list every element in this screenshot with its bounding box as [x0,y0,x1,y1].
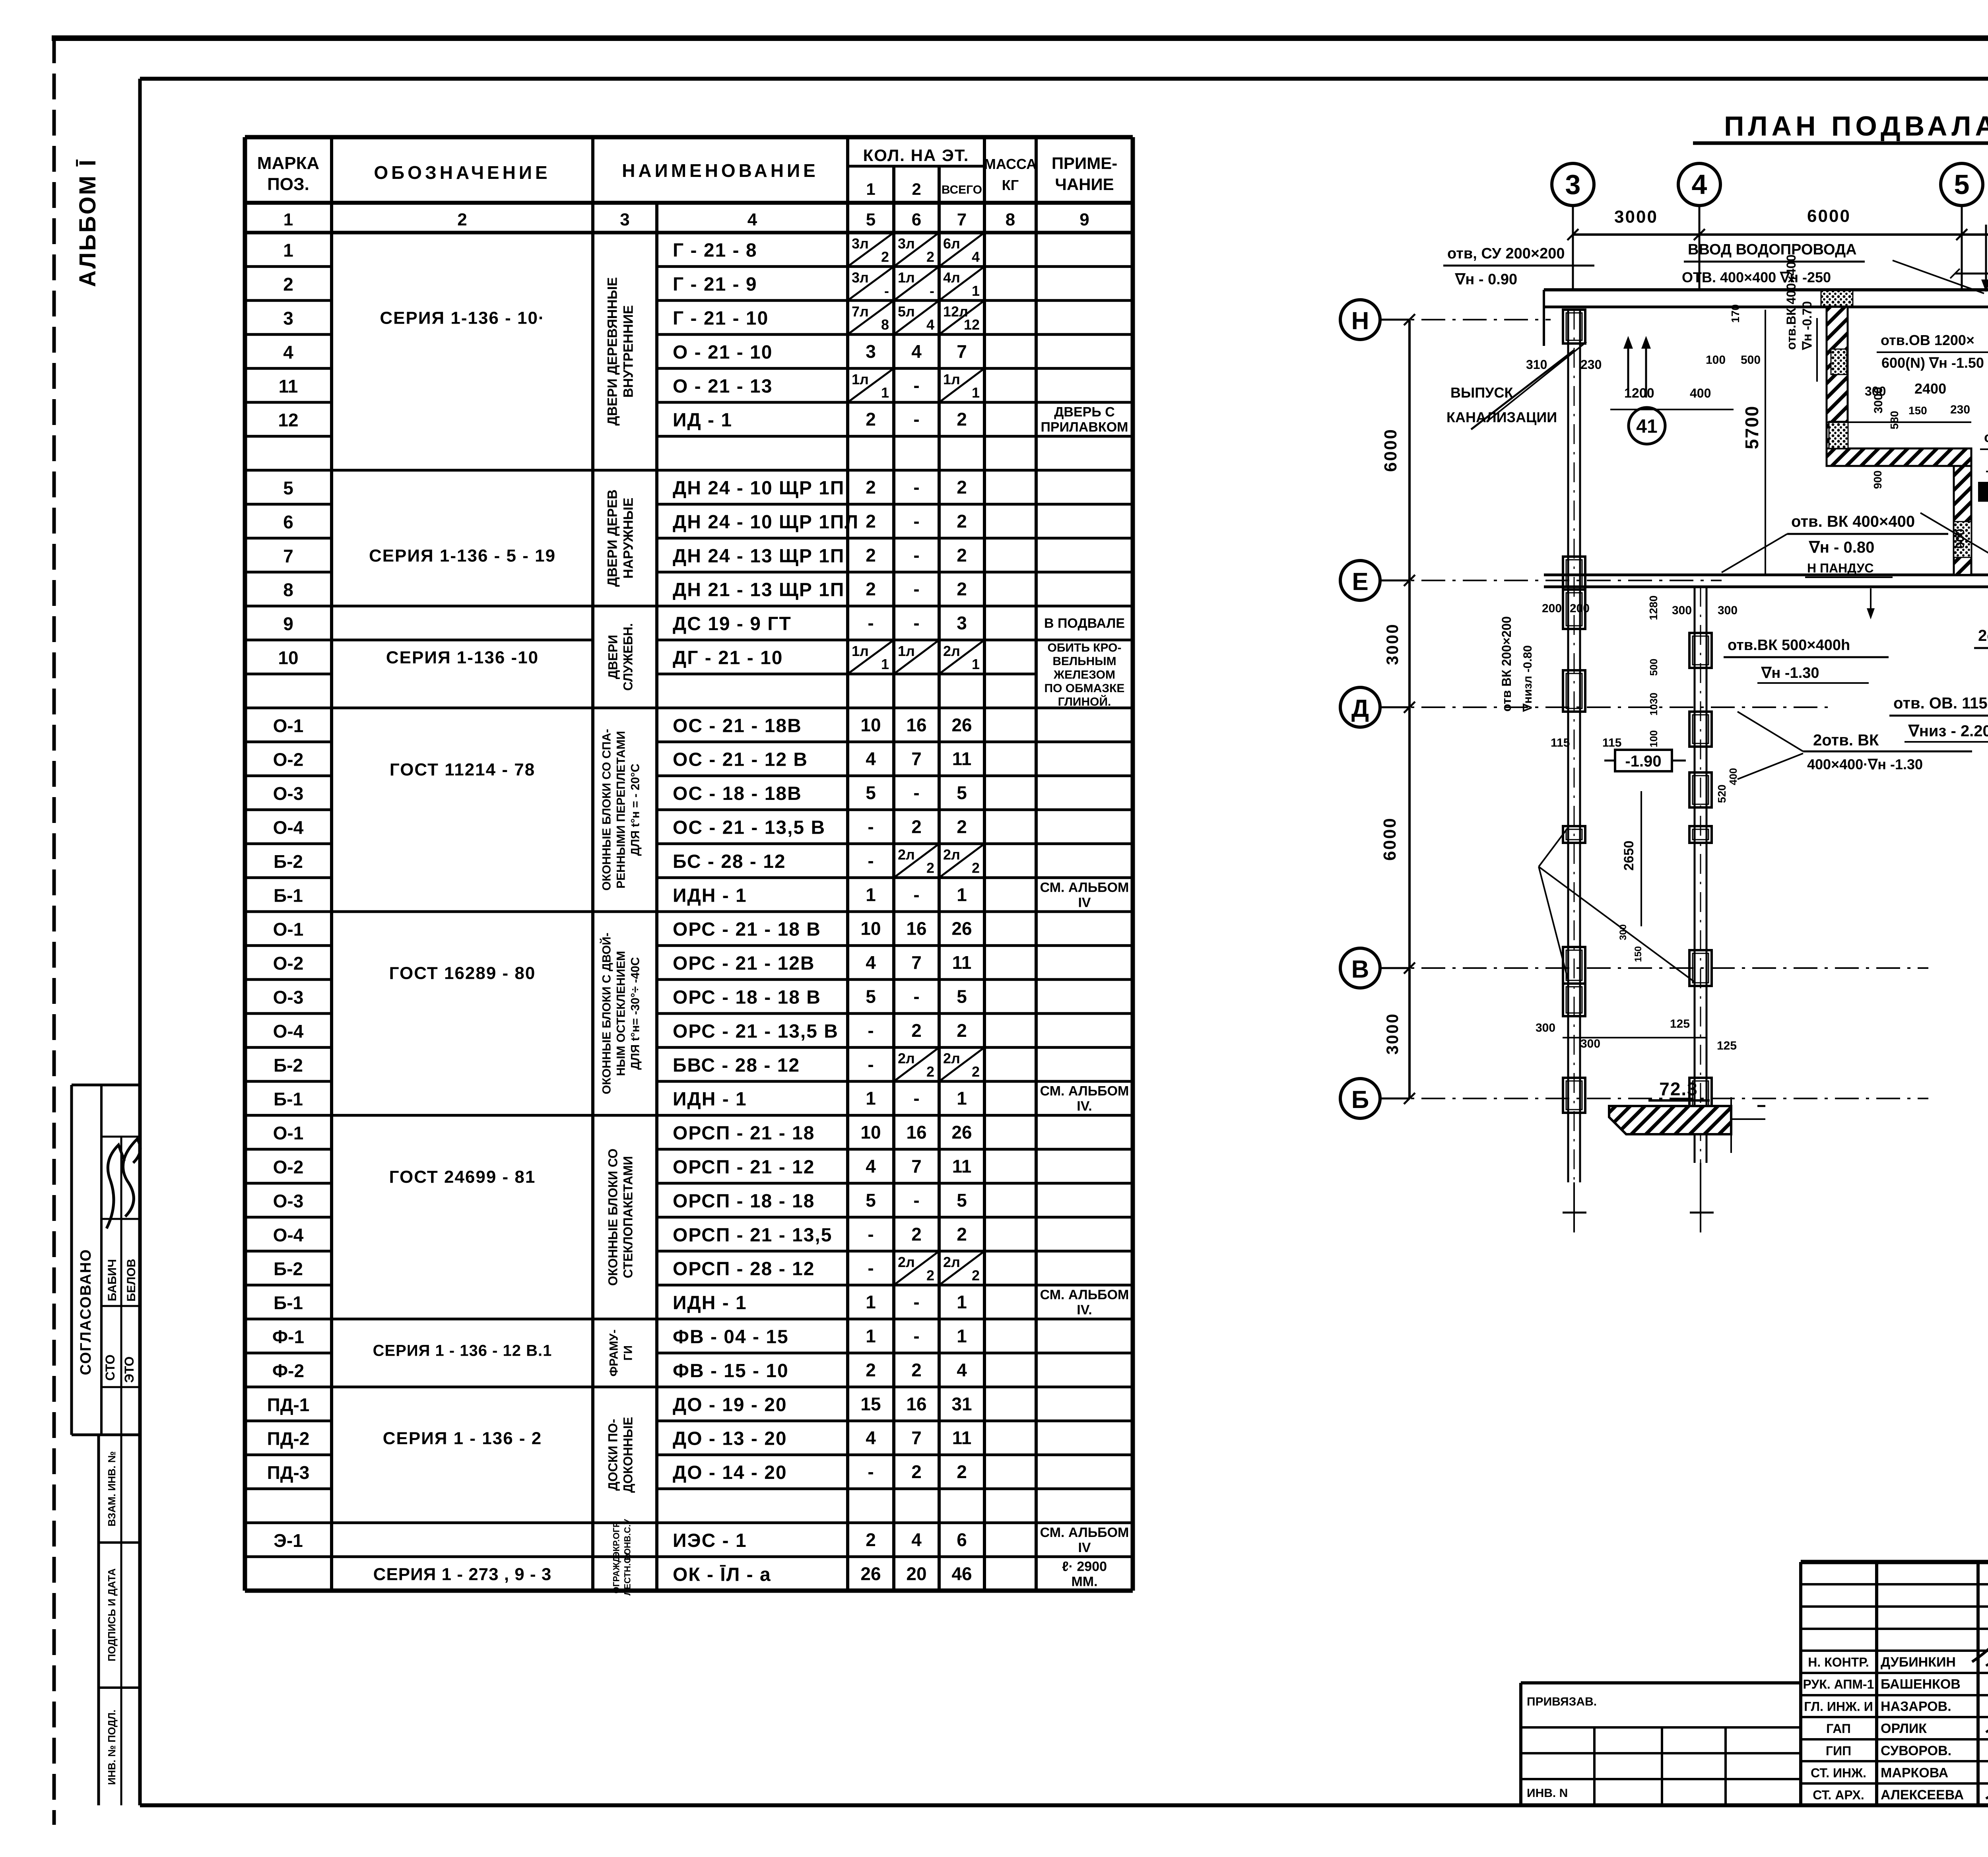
svg-text:-: - [868,613,874,633]
svg-text:ГЛ. ИНЖ. И: ГЛ. ИНЖ. И [1804,1699,1873,1713]
svg-text:6: 6 [283,512,293,532]
svg-text:3000: 3000 [1872,387,1885,413]
svg-text:ИЭС - 1: ИЭС - 1 [673,1530,747,1551]
svg-text:46: 46 [951,1563,972,1584]
svg-text:1: 1 [972,656,980,672]
svg-text:ВЫПУСК: ВЫПУСК [1450,384,1514,401]
svg-text:НЫМ ОСТЕКЛЕНИЕМ: НЫМ ОСТЕКЛЕНИЕМ [615,951,628,1076]
svg-text:ГЛИНОЙ.: ГЛИНОЙ. [1058,695,1111,708]
svg-text:ВНУТРЕННИЕ: ВНУТРЕННИЕ [621,305,636,398]
svg-text:-: - [913,511,919,532]
svg-text:100: 100 [1706,353,1726,367]
svg-text:ОРСП - 28 - 12: ОРСП - 28 - 12 [673,1259,815,1280]
svg-text:11: 11 [952,952,972,973]
svg-text:О - 21 - 13: О - 21 - 13 [673,376,773,397]
axis lines [1380,319,1551,320]
svg-text:7: 7 [283,545,293,566]
svg-text:-: - [913,375,919,396]
svg-text:РЕННЫМИ ПЕРЕПЛЕТАМИ: РЕННЫМИ ПЕРЕПЛЕТАМИ [615,731,628,889]
svg-text:∇н -0.70: ∇н -0.70 [1800,301,1814,350]
svg-text:О-3: О-3 [273,987,304,1008]
svg-text:3: 3 [283,308,293,329]
svg-text:2л: 2л [898,846,915,863]
svg-text:ГОСТ 11214 - 78: ГОСТ 11214 - 78 [390,760,535,779]
title block [1801,1560,1988,1564]
svg-text:12: 12 [278,410,298,431]
svg-text:ДУБИНКИН: ДУБИНКИН [1881,1655,1956,1670]
svg-text:5: 5 [957,782,967,803]
svg-text:1: 1 [866,884,876,905]
svg-text:7: 7 [911,952,922,973]
svg-text:отв. ВК 400×400: отв. ВК 400×400 [1791,513,1915,530]
svg-text:4: 4 [866,1156,876,1177]
svg-text:Б-2: Б-2 [274,1055,303,1075]
svg-text:2: 2 [866,477,876,498]
svg-text:580: 580 [1888,411,1901,429]
svg-text:ОС - 18 - 18В: ОС - 18 - 18В [673,783,802,804]
svg-text:ДОСКИ ПО-: ДОСКИ ПО- [606,1419,620,1491]
svg-text:ВЕЛЬНЫМ: ВЕЛЬНЫМ [1052,655,1116,668]
svg-text:ВЗАМ. ИНВ. №: ВЗАМ. ИНВ. № [106,1451,118,1526]
svg-text:5: 5 [866,782,876,803]
svg-text:6000: 6000 [1807,206,1851,226]
svg-text:Б-2: Б-2 [274,1259,303,1279]
svg-text:2: 2 [957,1020,967,1041]
svg-text:26: 26 [860,1563,881,1584]
svg-text:ДО - 19 - 20: ДО - 19 - 20 [673,1394,787,1415]
svg-text:-: - [868,1258,874,1279]
ramp hatched block [1609,1106,1731,1134]
svg-text:ОРСП - 18 - 18: ОРСП - 18 - 18 [673,1191,815,1212]
page outer border [52,37,56,1825]
svg-text:∇н - 0.80: ∇н - 0.80 [1808,539,1874,556]
svg-text:4: 4 [957,1360,967,1380]
svg-text:ГИ: ГИ [622,1345,635,1361]
svg-text:3000: 3000 [1383,623,1402,665]
svg-text:СТО: СТО [103,1354,117,1381]
svg-text:2: 2 [866,511,876,532]
svg-text:230: 230 [1950,403,1970,416]
svg-text:31: 31 [951,1393,972,1414]
svg-text:СЕРИЯ 1 - 136 - 12 В.1: СЕРИЯ 1 - 136 - 12 В.1 [373,1342,552,1360]
svg-text:6000: 6000 [1381,428,1400,472]
svg-text:ФВ - 04 - 15: ФВ - 04 - 15 [673,1327,789,1348]
svg-text:-: - [868,850,874,871]
svg-text:ОРСП - 21 - 18: ОРСП - 21 - 18 [673,1123,815,1144]
svg-text:2: 2 [283,274,293,295]
margin stamp cells [97,1435,100,1805]
wall strip axis 3 [1567,310,1569,1182]
svg-text:IV: IV [1078,895,1091,910]
svg-text:3л: 3л [898,235,915,252]
svg-text:1: 1 [957,884,967,905]
svg-text:1: 1 [881,384,889,401]
svg-text:отв.ВК 400×400: отв.ВК 400×400 [1784,254,1798,350]
svg-text:200: 200 [1570,602,1590,615]
svg-text:-: - [884,283,889,299]
svg-text:О - 21 - 10: О - 21 - 10 [673,342,773,363]
svg-text:МАССА: МАССА [984,156,1037,172]
svg-text:2: 2 [972,1063,980,1080]
svg-text:16: 16 [906,1122,926,1143]
svg-text:2: 2 [911,817,922,837]
svg-text:ДН 24 - 10 ЩР 1ПЛ: ДН 24 - 10 ЩР 1ПЛ [673,512,859,533]
svg-text:170: 170 [1729,304,1741,323]
svg-text:2: 2 [911,1224,922,1244]
svg-text:8: 8 [881,316,889,333]
svg-text:7: 7 [911,1428,922,1448]
svg-text:ОК - ĪЛ - а: ОК - ĪЛ - а [673,1564,771,1585]
svg-text:6000: 6000 [1380,817,1400,861]
svg-text:41: 41 [1636,416,1657,437]
svg-text:МАРКОВА: МАРКОВА [1881,1766,1948,1781]
svg-text:ПЛАН ПОДВАЛА: ПЛАН ПОДВАЛА [1724,111,1988,142]
svg-text:20: 20 [906,1563,926,1584]
svg-text:500: 500 [1648,659,1660,676]
svg-text:300: 300 [1580,1037,1600,1050]
svg-text:СЕРИЯ 1 - 136 - 2: СЕРИЯ 1 - 136 - 2 [383,1429,542,1448]
svg-text:ПД-2: ПД-2 [267,1428,310,1449]
svg-text:СМ. АЛЬБОМ: СМ. АЛЬБОМ [1040,1525,1129,1540]
svg-text:2: 2 [957,545,967,565]
svg-text:16: 16 [906,714,926,735]
svg-text:В: В [1351,956,1369,983]
svg-text:300: 300 [1536,1021,1555,1034]
svg-text:СМ. АЛЬБОМ: СМ. АЛЬБОМ [1040,1084,1129,1099]
svg-text:1: 1 [957,1326,967,1347]
svg-text:1: 1 [866,1292,876,1312]
level boxes [1978,482,1988,502]
svg-text:-: - [868,1461,874,1482]
svg-text:5л: 5л [898,303,915,320]
svg-text:1: 1 [283,240,293,261]
svg-text:4: 4 [972,248,980,265]
svg-text:520: 520 [1716,784,1728,803]
svg-text:ДН 24 - 10 ЩР 1П: ДН 24 - 10 ЩР 1П [673,478,845,499]
svg-text:ДО - 14 - 20: ДО - 14 - 20 [673,1462,787,1483]
svg-text:2: 2 [866,1529,876,1550]
svg-text:-: - [868,1020,874,1041]
top wall [1544,288,1988,291]
svg-text:1030: 1030 [1648,693,1660,716]
svg-text:КГ: КГ [1002,177,1019,193]
svg-text:2: 2 [911,1461,922,1482]
svg-text:-1.90: -1.90 [1625,753,1661,770]
svg-text:СТЕКЛОПАКЕТАМИ: СТЕКЛОПАКЕТАМИ [621,1156,635,1278]
svg-text:отв, СУ 200×200: отв, СУ 200×200 [1447,245,1565,262]
svg-text:ИД - 1: ИД - 1 [673,410,732,431]
svg-text:4: 4 [866,952,876,973]
svg-text:ГОСТ 24699 - 81: ГОСТ 24699 - 81 [389,1167,536,1187]
svg-text:3: 3 [866,341,876,362]
svg-text:ПД-1: ПД-1 [267,1394,310,1415]
svg-text:6: 6 [912,210,921,229]
svg-text:ДВЕРИ ДЕРЕВЯННЫЕ: ДВЕРИ ДЕРЕВЯННЫЕ [605,277,620,426]
svg-text:СМ. АЛЬБОМ: СМ. АЛЬБОМ [1040,880,1129,895]
svg-text:СОГЛАСОВАНО: СОГЛАСОВАНО [78,1249,94,1375]
svg-text:IV.: IV. [1077,1099,1092,1114]
svg-text:2: 2 [957,1461,967,1482]
svg-text:300: 300 [1618,924,1629,940]
svg-text:2: 2 [972,1267,980,1283]
svg-text:-: - [913,613,919,633]
svg-text:∇низ - 2.20: ∇низ - 2.20 [1908,722,1988,740]
svg-text:ИДН - 1: ИДН - 1 [673,885,747,906]
svg-text:2: 2 [957,1224,967,1244]
room number circles [1629,407,1665,444]
svg-text:Г - 21 - 10: Г - 21 - 10 [673,308,769,329]
svg-text:10: 10 [860,714,881,735]
svg-text:2л: 2л [943,643,960,659]
svg-text:ОКОННЫЕ БЛОКИ С ДВОЙ-: ОКОННЫЕ БЛОКИ С ДВОЙ- [600,933,613,1094]
svg-text:3000: 3000 [1383,1013,1402,1054]
svg-text:Б: Б [1351,1086,1369,1114]
svg-text:5: 5 [283,478,293,499]
svg-text:ОБИТЬ КРО-: ОБИТЬ КРО- [1048,641,1122,654]
svg-text:1: 1 [881,656,889,672]
svg-text:ОС - 21 - 12 В: ОС - 21 - 12 В [673,749,808,770]
svg-text:КАНАЛИЗАЦИИ: КАНАЛИЗАЦИИ [1446,409,1557,425]
svg-text:1280: 1280 [1647,596,1660,620]
svg-text:отв ВК 200×200: отв ВК 200×200 [1499,616,1514,712]
svg-text:5: 5 [1954,169,1970,200]
svg-text:11: 11 [279,376,298,396]
svg-text:26: 26 [951,918,972,939]
svg-text:1: 1 [866,1326,876,1347]
svg-text:2: 2 [881,248,889,265]
svg-text:-: - [913,477,919,498]
svg-text:ПРИЛАВКОМ: ПРИЛАВКОМ [1041,420,1128,435]
svg-text:-: - [913,1292,919,1312]
svg-text:ДО - 13 - 20: ДО - 13 - 20 [673,1428,787,1450]
svg-text:3000: 3000 [1614,207,1658,227]
svg-text:-: - [913,1088,919,1109]
svg-text:ОС - 21 - 18В: ОС - 21 - 18В [673,715,802,736]
svg-text:СЕРИЯ 1-136 - 10·: СЕРИЯ 1-136 - 10· [380,309,545,328]
svg-text:отв.ОВ 1200×: отв.ОВ 1200× [1881,332,1974,348]
svg-text:125: 125 [1670,1017,1690,1030]
svg-text:115: 115 [1602,736,1621,749]
svg-text:2: 2 [972,860,980,876]
svg-text:ПО ОБМАЗКЕ: ПО ОБМАЗКЕ [1044,682,1125,695]
svg-text:600(N) ∇н -1.50: 600(N) ∇н -1.50 [1881,355,1984,371]
svg-text:ГИП: ГИП [1826,1744,1851,1758]
svg-text:ИДН - 1: ИДН - 1 [673,1292,747,1314]
svg-text:-: - [930,283,934,299]
wall strip axis 4 [1694,587,1696,1163]
svg-text:2: 2 [912,180,921,198]
svg-text:9: 9 [283,613,293,634]
inner frame [138,79,142,1805]
svg-text:О-1: О-1 [273,919,304,940]
row axes [1340,300,1380,340]
svg-text:БС - 28 - 12: БС - 28 - 12 [673,851,786,872]
svg-text:ИНВ. N: ИНВ. N [1527,1787,1568,1800]
svg-text:310: 310 [1526,357,1547,372]
svg-text:-: - [913,884,919,905]
svg-text:6л: 6л [943,235,960,252]
svg-text:300: 300 [1718,604,1738,617]
svg-text:Н: Н [1351,307,1369,335]
svg-text:ОРС - 21 - 18 В: ОРС - 21 - 18 В [673,919,821,940]
svg-text:5: 5 [866,986,876,1007]
svg-text:3: 3 [1565,169,1581,200]
svg-text:Н ПАНДУС: Н ПАНДУС [1807,561,1873,575]
svg-text:16: 16 [906,918,926,939]
svg-text:СТ. ИНЖ.: СТ. ИНЖ. [1811,1766,1866,1780]
svg-text:О-1: О-1 [273,1123,304,1143]
svg-text:ОТВ. 400×400 ∇н -250: ОТВ. 400×400 ∇н -250 [1682,269,1831,285]
svg-text:О-2: О-2 [273,953,304,974]
svg-text:4: 4 [747,210,757,229]
svg-text:ФРАМУ-: ФРАМУ- [608,1329,621,1376]
svg-text:7: 7 [911,1156,922,1177]
svg-text:8: 8 [1006,210,1015,229]
svg-text:ЛЕСТН.СУ: ЛЕСТН.СУ [623,1552,633,1595]
svg-text:Б-2: Б-2 [274,851,303,872]
svg-text:ПОДПИСЬ И ДАТА: ПОДПИСЬ И ДАТА [106,1568,118,1661]
svg-text:ОКОННЫЕ БЛОКИ СО СПА-: ОКОННЫЕ БЛОКИ СО СПА- [600,729,613,891]
svg-text:7: 7 [957,341,967,362]
svg-text:ПРИМЕ-: ПРИМЕ- [1052,154,1117,173]
svg-text:11: 11 [952,1428,972,1448]
svg-text:26: 26 [951,1122,972,1143]
svg-text:150: 150 [1633,946,1644,962]
svg-text:2: 2 [957,579,967,600]
svg-text:2: 2 [911,1360,922,1380]
svg-text:ЧАНИЕ: ЧАНИЕ [1055,175,1114,194]
svg-text:2: 2 [926,860,934,876]
svg-text:2: 2 [957,409,967,430]
svg-text:4: 4 [866,1428,876,1448]
svg-text:О-1: О-1 [273,715,304,736]
svg-text:5: 5 [957,986,967,1007]
svg-text:2: 2 [926,1063,934,1080]
svg-text:ПРИВЯЗАВ.: ПРИВЯЗАВ. [1527,1695,1597,1708]
svg-text:∇н -1.30: ∇н -1.30 [1761,665,1819,681]
svg-text:200: 200 [1542,602,1562,615]
svg-text:Д: Д [1351,695,1369,722]
svg-text:БАШЕНКОВ: БАШЕНКОВ [1881,1677,1961,1692]
svg-text:26: 26 [951,714,972,735]
svg-text:БЕЛОВ: БЕЛОВ [125,1259,138,1302]
svg-text:1л: 1л [852,643,869,659]
svg-text:2л: 2л [943,846,960,863]
svg-text:ИДН - 1: ИДН - 1 [673,1089,747,1110]
svg-text:Б-1: Б-1 [274,1089,303,1110]
svg-text:11: 11 [952,749,972,769]
svg-text:-: - [913,545,919,565]
svg-text:2л: 2л [943,1050,960,1067]
svg-text:12: 12 [964,316,980,333]
svg-text:ОРС - 18 - 18 В: ОРС - 18 - 18 В [673,987,821,1008]
svg-text:НАИМЕНОВАНИЕ: НАИМЕНОВАНИЕ [622,160,819,181]
svg-text:ПОЗ.: ПОЗ. [267,175,309,194]
svg-text:2: 2 [866,409,876,430]
svg-text:ДВЕРЬ С: ДВЕРЬ С [1054,405,1115,420]
svg-text:СЕРИЯ 1-136 - 5 - 19: СЕРИЯ 1-136 - 5 - 19 [369,546,556,565]
column axes [1552,163,1594,206]
svg-text:2: 2 [957,817,967,837]
svg-text:5: 5 [866,210,876,229]
svg-text:2: 2 [866,1360,876,1380]
svg-text:3: 3 [957,613,967,633]
svg-text:ДН 21 - 13 ЩР 1П: ДН 21 - 13 ЩР 1П [673,580,845,601]
svg-text:Г - 21 - 9: Г - 21 - 9 [673,274,757,295]
svg-text:-: - [913,782,919,803]
svg-text:-: - [913,1190,919,1211]
svg-text:ДЛЯ t°н= -30°÷ -40С: ДЛЯ t°н= -30°÷ -40С [629,957,642,1069]
svg-text:ВСЕГО: ВСЕГО [942,183,982,196]
svg-text:СЛУЖЕБН.: СЛУЖЕБН. [621,623,635,691]
specification table [243,137,247,1591]
svg-text:2400: 2400 [1914,380,1946,397]
svg-text:10: 10 [860,918,881,939]
svg-text:300: 300 [1672,604,1692,617]
svg-text:О-3: О-3 [273,783,304,804]
svg-text:4: 4 [926,316,934,333]
svg-text:1: 1 [283,210,293,229]
svg-text:11: 11 [952,1156,972,1177]
svg-text:9: 9 [1079,210,1089,229]
svg-text:О-2: О-2 [273,749,304,770]
svg-text:НАРУЖНЫЕ: НАРУЖНЫЕ [621,498,636,579]
svg-text:ДОКОННЫЕ: ДОКОННЫЕ [621,1417,635,1493]
svg-text:КОЛ. НА ЭТ.: КОЛ. НА ЭТ. [863,146,969,165]
svg-text:4: 4 [911,1529,922,1550]
svg-text:-: - [868,1054,874,1075]
svg-text:О-4: О-4 [273,817,304,838]
svg-text:отв. ОВ. 1150×1150: отв. ОВ. 1150×1150 [1893,695,1988,712]
interior hatched walls [1827,307,1848,448]
svg-text:8: 8 [283,580,293,600]
svg-text:ОРЛИК: ОРЛИК [1881,1721,1927,1736]
svg-text:ОРС - 21 - 13,5 В: ОРС - 21 - 13,5 В [673,1021,839,1042]
svg-text:МАРКА: МАРКА [257,153,319,173]
svg-text:2: 2 [457,210,467,229]
svg-text:-: - [868,817,874,837]
svg-text:1: 1 [866,180,875,198]
svg-text:2: 2 [926,248,934,265]
svg-text:ОГРАЖД.: ОГРАЖД. [612,1554,621,1593]
svg-text:2: 2 [957,511,967,532]
svg-text:6: 6 [957,1529,967,1550]
svg-text:СЕРИЯ 1-136 -10: СЕРИЯ 1-136 -10 [386,648,539,668]
svg-text:ОРСП - 21 - 12: ОРСП - 21 - 12 [673,1157,815,1178]
svg-text:400: 400 [1727,768,1739,785]
svg-text:О-2: О-2 [273,1157,304,1178]
svg-text:5: 5 [957,1190,967,1211]
svg-text:1л: 1л [943,371,960,388]
svg-text:О-3: О-3 [273,1191,304,1211]
svg-text:5700: 5700 [1741,406,1762,449]
svg-text:1: 1 [957,1088,967,1109]
svg-text:4: 4 [911,341,922,362]
svg-text:15: 15 [860,1393,881,1414]
svg-text:ВВОД ВОДОПРОВОДА: ВВОД ВОДОПРОВОДА [1688,241,1857,258]
svg-text:2650: 2650 [1621,840,1637,871]
svg-text:ДВЕРИ ДЕРЕВ: ДВЕРИ ДЕРЕВ [605,489,620,587]
svg-text:2: 2 [866,579,876,600]
svg-text:БАБИЧ: БАБИЧ [106,1259,119,1301]
svg-text:ЭКР.ОГР: ЭКР.ОГР [612,1521,621,1558]
svg-text:100: 100 [1648,730,1660,747]
svg-text:∇н - 0.90: ∇н - 0.90 [1455,271,1517,288]
svg-text:ДН 24 - 13 ЩР 1П: ДН 24 - 13 ЩР 1П [673,545,845,567]
svg-text:1: 1 [972,384,980,401]
svg-text:ОС - 21 - 13,5 В: ОС - 21 - 13,5 В [673,817,825,838]
svg-text:10: 10 [860,1122,881,1143]
